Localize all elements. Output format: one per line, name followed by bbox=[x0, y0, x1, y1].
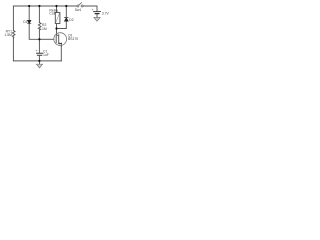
switch SW1 bbox=[77, 3, 83, 7]
svg-text:1.5M: 1.5M bbox=[4, 33, 12, 37]
wire relay branch top bbox=[56, 6, 58, 13]
wire D1 to gate node bbox=[29, 24, 39, 39]
wire top rail bbox=[13, 5, 76, 7]
wire D1 branch top bbox=[28, 6, 30, 20]
wire left vertical bottom bbox=[12, 38, 14, 61]
transistor Q1 BS170 bbox=[54, 33, 67, 47]
wire gate bbox=[39, 38, 54, 40]
node dot C1/bottom rail bbox=[38, 60, 40, 62]
diode D1 bbox=[28, 20, 31, 23]
diode D2 bbox=[65, 18, 69, 22]
svg-text:+: + bbox=[36, 49, 38, 53]
svg-text:D2: D2 bbox=[69, 18, 73, 22]
capacitor C1 bbox=[37, 53, 43, 55]
relay coil diagonal bbox=[56, 13, 60, 23]
svg-text:BS170: BS170 bbox=[68, 37, 78, 41]
wire D2 to top rail bbox=[65, 6, 67, 18]
wire drain node to D2 bbox=[57, 21, 67, 28]
node dot R2/top rail bbox=[38, 5, 40, 7]
svg-text:3.7V: 3.7V bbox=[102, 11, 110, 15]
node dot D2/top rail bbox=[65, 5, 67, 7]
node dot drain bbox=[55, 27, 57, 29]
wire C1 to bottom rail bbox=[38, 56, 40, 61]
svg-text:Sw1: Sw1 bbox=[75, 8, 82, 12]
wire left vertical top bbox=[12, 6, 14, 31]
node dot D1/top rail bbox=[28, 5, 30, 7]
resistor R2 bbox=[38, 23, 41, 31]
wire R2 branch top bbox=[38, 6, 40, 23]
wire source to bottom rail bbox=[60, 46, 62, 61]
wire drain bbox=[56, 29, 58, 36]
wire R2 to gate node bbox=[38, 30, 40, 39]
svg-text:1uF: 1uF bbox=[43, 53, 49, 57]
svg-text:Coil: Coil bbox=[49, 12, 55, 16]
wire relay bottom to drain node bbox=[56, 24, 58, 29]
wire bottom rail bbox=[13, 60, 61, 62]
wire gate node to C1 bbox=[38, 39, 40, 53]
wire battery to ground bbox=[96, 14, 98, 17]
ground (battery) bbox=[94, 17, 100, 21]
wire switch to battery bbox=[83, 6, 97, 11]
battery B1 3.7V bbox=[94, 12, 101, 14]
resistor RT1 bbox=[12, 31, 15, 39]
svg-text:1M: 1M bbox=[42, 27, 47, 31]
ground (bottom) bbox=[36, 61, 42, 68]
node dot relay/top rail bbox=[55, 5, 57, 7]
relay coil K1 box bbox=[55, 13, 60, 24]
svg-text:D1: D1 bbox=[23, 20, 27, 24]
node dot gate bbox=[38, 38, 40, 40]
